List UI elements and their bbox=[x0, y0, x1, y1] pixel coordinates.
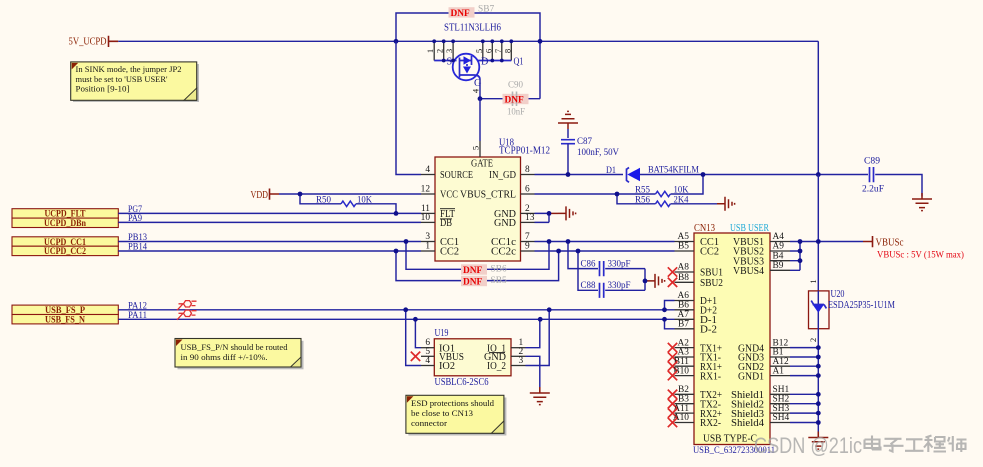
svg-text:VCC: VCC bbox=[440, 190, 458, 201]
pin 6 IO1 bbox=[421, 338, 455, 354]
svg-text:GATE: GATE bbox=[471, 159, 493, 170]
wire VBUS1 row to port bbox=[790, 241, 863, 243]
svg-text:10nF: 10nF bbox=[507, 108, 525, 118]
pin A11 RX2+ (nc) bbox=[668, 404, 722, 420]
svg-text:5: 5 bbox=[474, 49, 484, 53]
svg-text:330pF: 330pF bbox=[608, 281, 631, 291]
ground at U18 GND pins bbox=[535, 206, 576, 222]
svg-text:A4: A4 bbox=[773, 232, 785, 242]
power port 5V_UCPD bbox=[69, 36, 119, 48]
pin B9 VBUS4 bbox=[733, 261, 790, 277]
pin B11 RX1+ (nc) bbox=[668, 357, 722, 373]
pin 4 SOURCE bbox=[421, 165, 473, 181]
pin 8 IN_GD bbox=[489, 165, 535, 181]
svg-text:DNF: DNF bbox=[505, 96, 525, 106]
svg-text:5V_UCPD: 5V_UCPD bbox=[69, 37, 107, 48]
wire FS_N to U19 IO1 bbox=[415, 319, 421, 347]
svg-text:RX2-: RX2- bbox=[700, 418, 722, 429]
svg-text:10K: 10K bbox=[674, 185, 689, 195]
net label PB14 / wire CC2 bbox=[118, 242, 421, 252]
pin A12 GND2 bbox=[738, 357, 790, 373]
svg-text:DB: DB bbox=[440, 218, 452, 229]
svg-text:6: 6 bbox=[525, 185, 530, 195]
svg-text:CSDN @21ic: CSDN @21ic bbox=[754, 433, 862, 458]
resistor R50 10K bbox=[300, 194, 396, 213]
svg-text:R55: R55 bbox=[635, 185, 650, 195]
solder bridge SB6 (DNF) bbox=[406, 242, 549, 277]
pin 3 IO_2 bbox=[487, 356, 526, 372]
svg-text:B9: B9 bbox=[773, 261, 784, 271]
svg-text:8: 8 bbox=[525, 165, 530, 175]
wire C86/C88 join bbox=[644, 269, 646, 291]
pin B1 GND3 bbox=[738, 348, 790, 364]
svg-text:3: 3 bbox=[519, 356, 524, 366]
wire IN_GD to right bus bbox=[703, 41, 818, 174]
svg-text:10: 10 bbox=[421, 213, 431, 223]
differential pair marker P bbox=[177, 301, 197, 311]
svg-text:C89: C89 bbox=[864, 157, 880, 167]
wire VBUS2-4 bus bbox=[790, 242, 800, 271]
svg-text:G: G bbox=[474, 78, 482, 89]
svg-text:DNF: DNF bbox=[463, 266, 483, 276]
svg-text:B6: B6 bbox=[678, 301, 689, 311]
svg-text:2K4: 2K4 bbox=[674, 196, 689, 206]
svg-text:In SINK mode, the jumper JP2: In SINK mode, the jumper JP2 bbox=[76, 64, 182, 74]
svg-text:R56: R56 bbox=[635, 196, 650, 206]
svg-text:C86: C86 bbox=[581, 259, 596, 269]
svg-text:A7: A7 bbox=[678, 310, 690, 320]
svg-text:SB6: SB6 bbox=[491, 265, 507, 275]
pin 5 GATE top bbox=[471, 99, 481, 157]
svg-text:4: 4 bbox=[471, 88, 481, 93]
svg-text:7: 7 bbox=[525, 232, 530, 242]
svg-text:VBUSc : 5V (15W max): VBUSc : 5V (15W max) bbox=[877, 250, 964, 261]
pin SH2 Shield2 bbox=[731, 394, 790, 410]
pin 5 VBUS (nc) bbox=[411, 347, 464, 363]
port UCPD_CC1 bbox=[12, 237, 118, 248]
svg-text:4: 4 bbox=[425, 165, 430, 175]
svg-text:S: S bbox=[447, 57, 453, 68]
net label PB13 / wire CC1 bbox=[118, 233, 421, 243]
pin 1 CC2 bbox=[421, 242, 459, 258]
wire 5V bus bbox=[118, 40, 818, 42]
transistor Q1 STL11N3LLH6 bbox=[425, 23, 523, 94]
wire gate of Q1 down bbox=[479, 79, 481, 99]
svg-text:SB7: SB7 bbox=[478, 5, 494, 15]
ground at bottom bus bbox=[808, 432, 828, 450]
port USB_FS_N bbox=[12, 315, 118, 326]
wire IO_2 up to FS_P bbox=[526, 310, 550, 366]
pin B4 VBUS3 bbox=[733, 251, 790, 267]
svg-text:13: 13 bbox=[525, 213, 535, 223]
svg-text:1: 1 bbox=[425, 242, 430, 252]
svg-text:C87: C87 bbox=[577, 137, 592, 147]
net label PA9 / wire DB bbox=[118, 214, 421, 224]
svg-text:ESDA25P35-1U1M: ESDA25P35-1U1M bbox=[828, 300, 895, 311]
wire right bus lower bbox=[817, 329, 819, 438]
svg-text:BAT54KFILM: BAT54KFILM bbox=[648, 166, 700, 176]
svg-text:VDD: VDD bbox=[251, 190, 269, 201]
svg-text:330pF: 330pF bbox=[608, 259, 631, 269]
svg-text:in 90 ohms diff +/-10%.: in 90 ohms diff +/-10%. bbox=[181, 352, 268, 362]
pin B7 D-2 bbox=[675, 320, 718, 336]
svg-text:A1: A1 bbox=[773, 366, 785, 376]
capacitor C87 100nF 50V bbox=[558, 111, 619, 174]
svg-text:SB5: SB5 bbox=[491, 276, 507, 286]
net label PG7 / wire FLT bbox=[118, 205, 421, 215]
pin 13 GND bbox=[494, 213, 535, 229]
port UCPD_DBn bbox=[12, 218, 118, 229]
note: SINK mode jumper bbox=[71, 62, 199, 102]
svg-text:Position [9-10]: Position [9-10] bbox=[76, 84, 130, 94]
svg-text:A10: A10 bbox=[673, 413, 689, 423]
op-amp U18 TCPP01-M12 body bbox=[435, 138, 550, 262]
svg-text:6: 6 bbox=[483, 48, 493, 53]
watermark CSDN @21ic bbox=[754, 433, 967, 458]
svg-text:SOURCE: SOURCE bbox=[440, 170, 473, 181]
pin 2 GND bbox=[484, 347, 526, 363]
svg-text:7: 7 bbox=[493, 48, 503, 53]
svg-text:12: 12 bbox=[421, 185, 431, 195]
svg-text:D1: D1 bbox=[606, 166, 616, 176]
svg-text:CC2c: CC2c bbox=[491, 247, 517, 258]
port UCPD_CC2 bbox=[12, 246, 118, 257]
pin 1 IO_1 bbox=[487, 338, 526, 354]
pin 3 CC1 bbox=[421, 232, 459, 248]
svg-text:USB USER: USB USER bbox=[730, 223, 769, 234]
svg-text:ESD protections should: ESD protections should bbox=[411, 398, 495, 408]
svg-text:VBUS_CTRL: VBUS_CTRL bbox=[460, 190, 516, 201]
svg-text:A8: A8 bbox=[678, 263, 690, 273]
diode D1 BAT54KFILM bbox=[606, 166, 703, 183]
ground at R56 bbox=[717, 197, 735, 211]
svg-text:C90: C90 bbox=[508, 81, 523, 91]
net label PA11 / wire USB_FS_N bbox=[118, 311, 674, 321]
note: ESD protections bbox=[406, 395, 507, 435]
svg-text:9: 9 bbox=[525, 242, 530, 252]
svg-text:connector: connector bbox=[411, 418, 447, 428]
svg-text:D-2: D-2 bbox=[700, 325, 717, 336]
svg-text:D: D bbox=[481, 57, 488, 68]
svg-text:2: 2 bbox=[808, 338, 818, 342]
svg-text:U20: U20 bbox=[831, 289, 845, 300]
wire VDD to VCC bbox=[279, 193, 421, 195]
pin B10 RX1- (nc) bbox=[668, 366, 722, 382]
resistor R55 10K bbox=[535, 175, 704, 197]
svg-text:USBLC6-2SC6: USBLC6-2SC6 bbox=[435, 377, 489, 388]
capacitor C88 330pF bbox=[578, 251, 645, 298]
svg-text:Q1: Q1 bbox=[514, 57, 524, 68]
svg-text:3: 3 bbox=[444, 49, 454, 53]
pin SH4 Shield4 bbox=[731, 413, 790, 429]
pin 2 GND bbox=[494, 204, 535, 220]
pin 7 CC1c bbox=[491, 232, 535, 248]
pin 4 IO2 bbox=[421, 356, 455, 372]
wire GND rows to bus bbox=[790, 348, 818, 376]
junction dots top bus bbox=[394, 39, 543, 101]
svg-text:A9: A9 bbox=[773, 242, 785, 252]
svg-text:IO2: IO2 bbox=[439, 361, 455, 372]
resistor R56 2K4 bbox=[617, 194, 717, 207]
svg-text:STL11N3LLH6: STL11N3LLH6 bbox=[444, 23, 501, 34]
pin A9 VBUS2 bbox=[733, 242, 790, 258]
svg-text:1: 1 bbox=[425, 49, 435, 53]
wire CC1c row bbox=[535, 241, 675, 243]
svg-text:100nF, 50V: 100nF, 50V bbox=[577, 148, 619, 158]
wire 5V to SOURCE pin bbox=[396, 41, 421, 174]
port USB_FS_P bbox=[12, 305, 118, 316]
pin A8 SBU1 (nc) bbox=[668, 263, 723, 279]
svg-text:CC2: CC2 bbox=[440, 247, 459, 258]
pin A2 TX1+ (nc) bbox=[668, 338, 722, 354]
wire right bus upper bbox=[817, 175, 819, 291]
svg-text:GND: GND bbox=[494, 218, 516, 229]
power port VDD bbox=[251, 189, 280, 201]
pin A7 D-1 bbox=[675, 310, 718, 326]
svg-text:DNF: DNF bbox=[463, 278, 483, 288]
pin A3 TX1- (nc) bbox=[668, 348, 722, 364]
svg-text:TCPP01-M12: TCPP01-M12 bbox=[499, 146, 550, 157]
wire CC2c row bbox=[535, 250, 675, 252]
pin B8 SBU2 (nc) bbox=[668, 273, 723, 289]
pin A4 VBUS1 bbox=[733, 232, 790, 248]
connector CN13 USB TYPE-C body bbox=[693, 223, 775, 456]
ground at C86/C88 bbox=[645, 274, 665, 288]
pin 9 CC2c bbox=[491, 242, 535, 258]
note: USB_FS routing bbox=[175, 339, 304, 370]
svg-text:VBUSc: VBUSc bbox=[876, 238, 904, 249]
annotation VBUSc rating bbox=[877, 250, 964, 261]
junction dots right section bbox=[798, 239, 821, 425]
capacitor C86 330pF bbox=[568, 242, 645, 277]
capacitor C89 2.2uF bbox=[818, 157, 922, 197]
svg-text:RX1-: RX1- bbox=[700, 371, 722, 382]
junction dots FS wires bbox=[403, 307, 667, 321]
svg-text:USB TYPE-C: USB TYPE-C bbox=[703, 434, 757, 445]
port UCPD_FLT bbox=[12, 209, 118, 220]
wire IO_1 up to FS_N bbox=[526, 319, 540, 347]
capacitor C90 (DNF) bbox=[480, 81, 540, 118]
wire SB7 loop bbox=[396, 13, 540, 99]
wire FS_P branch to D+1 bbox=[665, 301, 675, 310]
pin B2 TX2+ (nc) bbox=[668, 385, 722, 401]
svg-text:3: 3 bbox=[425, 232, 430, 242]
wire U19 GND down bbox=[526, 356, 540, 387]
svg-text:IN_GD: IN_GD bbox=[489, 170, 516, 181]
svg-text:CC2: CC2 bbox=[700, 247, 719, 258]
pin SH1 Shield1 bbox=[731, 385, 790, 401]
svg-text:2.2uF: 2.2uF bbox=[862, 185, 884, 195]
svg-text:VBUS4: VBUS4 bbox=[733, 266, 764, 277]
pin 6 VBUS_CTRL bbox=[460, 185, 535, 201]
pin B12 GND4 bbox=[738, 338, 790, 354]
svg-text:Shield4: Shield4 bbox=[731, 418, 764, 429]
svg-text:UCPD_DBn: UCPD_DBn bbox=[44, 219, 87, 229]
op-amp U19 USBLC6-2SC6 body bbox=[434, 328, 511, 388]
svg-text:SBU2: SBU2 bbox=[700, 278, 723, 289]
differential pair marker N bbox=[177, 310, 197, 320]
wire IN_GD row bbox=[535, 174, 624, 176]
svg-text:C88: C88 bbox=[581, 281, 596, 291]
svg-text:GND1: GND1 bbox=[738, 371, 764, 382]
svg-text:B8: B8 bbox=[678, 273, 689, 283]
svg-text:B4: B4 bbox=[773, 251, 784, 261]
svg-text:U19: U19 bbox=[435, 328, 449, 339]
svg-text:SH4: SH4 bbox=[773, 413, 790, 423]
svg-text:5: 5 bbox=[471, 146, 481, 150]
svg-text:must be set to 'USB USER': must be set to 'USB USER' bbox=[76, 74, 168, 84]
svg-text:IO_2: IO_2 bbox=[487, 361, 506, 372]
svg-text:4: 4 bbox=[425, 356, 430, 366]
svg-text:A5: A5 bbox=[678, 232, 690, 242]
pin 11 FLT bbox=[421, 204, 456, 220]
pin A5 CC1 bbox=[675, 232, 720, 248]
pin 12 VCC bbox=[421, 185, 459, 201]
svg-text:USB_FS_P/N should be routed: USB_FS_P/N should be routed bbox=[181, 342, 289, 352]
svg-text:8: 8 bbox=[502, 49, 512, 53]
svg-text:R50: R50 bbox=[316, 195, 331, 205]
svg-text:B5: B5 bbox=[678, 242, 689, 252]
pin A1 GND1 bbox=[738, 366, 790, 382]
junction dots mid section bbox=[298, 172, 821, 283]
svg-text:USB_FS_N: USB_FS_N bbox=[45, 316, 85, 326]
pin B3 TX2- (nc) bbox=[668, 394, 722, 410]
svg-text:B7: B7 bbox=[678, 320, 689, 330]
svg-text:be close to CN13: be close to CN13 bbox=[411, 408, 473, 418]
pin 10 DB bbox=[421, 213, 453, 229]
svg-text:10K: 10K bbox=[357, 195, 372, 205]
svg-text:UCPD_CC2: UCPD_CC2 bbox=[44, 247, 86, 257]
solder bridge SB5 (DNF) bbox=[396, 251, 559, 288]
diode U20 ESDA25P35-1U1M bbox=[808, 279, 895, 342]
wire shield rows to bus bbox=[790, 394, 818, 422]
pin B6 D+2 bbox=[675, 301, 718, 317]
wire FS_P to U19 IO2 bbox=[406, 310, 421, 366]
pin A10 RX2- (nc) bbox=[668, 413, 722, 429]
power port VBUSc bbox=[863, 236, 904, 249]
svg-text:CN13: CN13 bbox=[694, 223, 715, 234]
svg-text:1: 1 bbox=[808, 279, 818, 283]
solder bridge SB7 DNF label bbox=[449, 5, 495, 20]
net label PA12 / wire USB_FS_P bbox=[118, 301, 674, 311]
pin B5 CC2 bbox=[675, 242, 720, 258]
pin A6 D+1 bbox=[675, 291, 718, 307]
svg-text:DNF: DNF bbox=[451, 9, 471, 19]
wire FS_N branch to D-2 bbox=[665, 319, 675, 329]
pin SH3 Shield3 bbox=[731, 404, 790, 420]
ground at U19 bbox=[530, 387, 550, 405]
ground at C89 bbox=[912, 193, 932, 211]
